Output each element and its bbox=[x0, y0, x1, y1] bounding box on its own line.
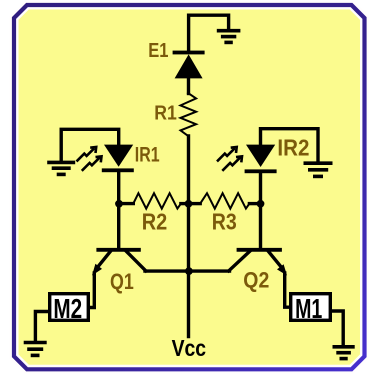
ground (M2 bottom-left) bbox=[24, 343, 47, 356]
Q1 emitter arrowhead bbox=[92, 264, 102, 276]
Q2 emitter arrowhead bbox=[277, 264, 287, 275]
wire R2 left stub bbox=[120, 202, 133, 205]
transistor Q1 collector bbox=[127, 252, 146, 271]
svg-text:R1: R1 bbox=[154, 103, 177, 125]
wire Q2 emitter to M1 bbox=[285, 273, 290, 307]
svg-text:M2: M2 bbox=[53, 293, 82, 324]
wire R3 right stub bbox=[249, 202, 260, 205]
resistor R2 bbox=[133, 193, 181, 208]
wire Q1 emitter to M2 bbox=[90, 273, 95, 308]
wire E1 anode to R1 bbox=[187, 77, 190, 94]
transistor Q2 bar bbox=[239, 248, 281, 252]
svg-text:Q1: Q1 bbox=[110, 269, 134, 294]
wire R3 left stub bbox=[189, 202, 200, 205]
wire M1 to ground bbox=[332, 311, 344, 345]
wire M2 to ground bbox=[35, 312, 48, 341]
box M2 bbox=[50, 293, 89, 324]
wire Q1 collector to center node bbox=[145, 269, 189, 272]
node (Q1/Q2 collectors) bbox=[185, 267, 193, 275]
transistor Q1 bar bbox=[98, 248, 139, 252]
node (IR2/R3/Q2) bbox=[257, 200, 265, 208]
diode E1 bbox=[173, 51, 205, 79]
transistor Q2 emitter bbox=[269, 252, 283, 269]
transistor Q1 emitter bbox=[97, 252, 111, 269]
resistor R3 bbox=[200, 193, 249, 208]
wire R2 right stub bbox=[181, 202, 188, 205]
wire center column R1 to Vcc bbox=[187, 136, 190, 337]
wire IR2 top to ground bbox=[261, 129, 319, 162]
photodiode IR1 bbox=[102, 145, 134, 173]
svg-text:Vcc: Vcc bbox=[172, 335, 207, 361]
ground (IR1 left) bbox=[47, 162, 75, 174]
svg-text:R3: R3 bbox=[212, 208, 237, 234]
wire IR1 top to ground bbox=[61, 129, 118, 160]
wire IR1 cathode to Q1 base bbox=[117, 171, 120, 248]
resistor R1 bbox=[181, 93, 197, 136]
svg-text:E1: E1 bbox=[148, 39, 168, 62]
wire IR2 cathode to Q2 base bbox=[259, 172, 262, 249]
svg-text:IR2: IR2 bbox=[277, 134, 309, 160]
svg-text:M1: M1 bbox=[295, 293, 322, 324]
transistor Q2 collector bbox=[229, 252, 250, 271]
svg-text:Q2: Q2 bbox=[243, 268, 269, 293]
light arrow IR2 a bbox=[217, 147, 237, 161]
light arrow IR1 b bbox=[82, 156, 102, 170]
ground (M1 bottom-right) bbox=[333, 347, 355, 359]
svg-text:IR1: IR1 bbox=[135, 143, 160, 166]
wire E1 top to ground bbox=[189, 15, 229, 52]
node (R1/R2/R3) bbox=[185, 200, 193, 208]
node (IR1/R2/Q1) bbox=[115, 200, 123, 208]
box M1 bbox=[291, 293, 331, 324]
wire Q2 collector to center node bbox=[189, 269, 230, 272]
svg-text:R2: R2 bbox=[142, 208, 168, 234]
ground (IR2 right) bbox=[304, 163, 333, 176]
photodiode IR2 bbox=[245, 145, 277, 174]
light arrow IR2 b bbox=[222, 156, 242, 170]
light arrow IR1 a bbox=[77, 147, 97, 161]
ground (E1 top) bbox=[217, 31, 241, 43]
